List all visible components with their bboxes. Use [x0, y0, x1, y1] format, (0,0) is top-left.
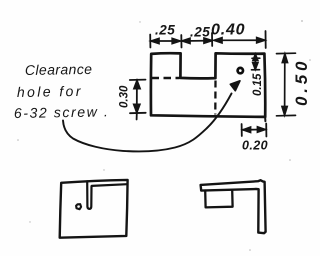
- hidden line (dashed vertical bend line): [214, 81, 216, 115]
- note text "Clearance hole for 6-32 screw.": [14, 61, 110, 121]
- leader arrowhead: [230, 81, 240, 91]
- bottom-left view: square outline: [60, 180, 128, 238]
- svg-text:0.30: 0.30: [119, 85, 131, 108]
- svg-text:.25: .25: [155, 23, 175, 38]
- leader arrow from note to hole: [63, 94, 232, 152]
- top dimension lines with arrows: [151, 38, 265, 44]
- clearance hole O: [238, 68, 243, 73]
- left dimension 0.30: [130, 80, 146, 120]
- svg-text:.25: .25: [190, 25, 210, 40]
- hole depth dimension 0.15: [252, 54, 260, 70]
- bottom-left view: hole: [76, 204, 81, 209]
- bottom-left view: slot: [87, 181, 91, 209]
- top dimension extension ticks: [150, 31, 266, 48]
- bottom-right view: tab rectangle: [205, 190, 232, 207]
- svg-text:0.20: 0.20: [242, 139, 268, 153]
- svg-text:Clearance: Clearance: [25, 61, 93, 78]
- part outline (front view): [151, 53, 265, 117]
- right dimension 0.50: [277, 53, 296, 116]
- svg-text:0.50: 0.50: [292, 58, 311, 106]
- svg-text:6-32 screw .: 6-32 screw .: [14, 103, 110, 121]
- bottom-right dimension 0.20: [242, 124, 267, 137]
- hidden line (dashed horizontal at notch depth): [152, 77, 180, 79]
- part corner overshoot: [264, 117, 266, 122]
- svg-text:0.40: 0.40: [211, 22, 245, 39]
- bottom-left view: inner edge line: [92, 184, 127, 186]
- bottom-right view: top bar: [201, 180, 266, 233]
- svg-text:hole for: hole for: [17, 83, 83, 100]
- svg-text:0.15: 0.15: [252, 73, 264, 96]
